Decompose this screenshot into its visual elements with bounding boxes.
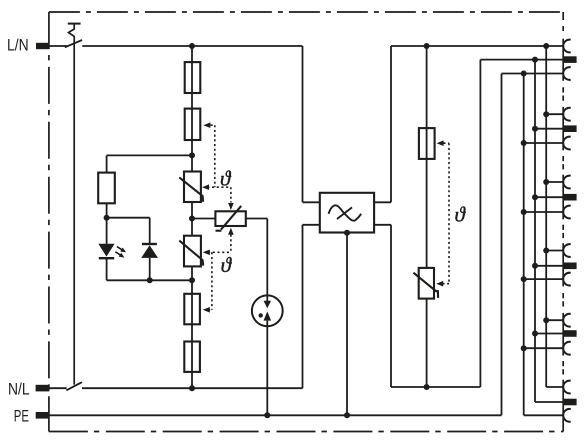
svg-text:N/L: N/L — [8, 380, 30, 399]
svg-text:ϑ: ϑ — [220, 166, 232, 190]
svg-text:ϑ: ϑ — [221, 253, 233, 277]
svg-text:ϑ: ϑ — [455, 203, 467, 227]
svg-text:PE: PE — [14, 406, 29, 425]
svg-text:L/N: L/N — [7, 36, 29, 55]
